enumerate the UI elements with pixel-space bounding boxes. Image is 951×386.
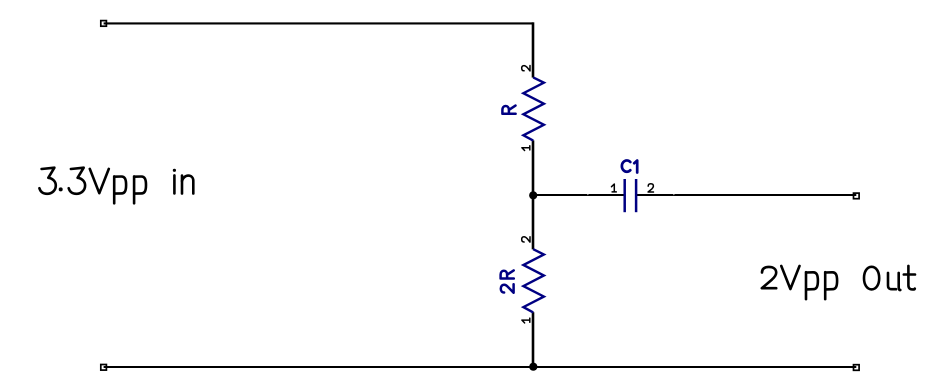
wire top vertical to R — [532, 22, 535, 77]
terminal top-left — [101, 21, 107, 27]
net label 2Vpp Out — [762, 266, 915, 299]
resistor R pin 2 number — [522, 66, 530, 71]
pin end notch right of C1 — [673, 193, 675, 195]
junction middle node — [529, 191, 537, 199]
terminal bottom-left — [101, 365, 107, 371]
capacitor C1 plates — [625, 179, 636, 212]
resistor R label — [502, 106, 515, 114]
resistor 2R body — [523, 249, 544, 312]
resistor 2R pin 2 number — [522, 237, 530, 242]
resistor 2R pin 1 number — [522, 318, 530, 323]
resistor R pin 1 number — [522, 146, 530, 151]
resistor 2R label — [501, 270, 514, 292]
wire middle left segment — [533, 194, 624, 196]
resistor R body — [523, 77, 544, 140]
terminal middle-right — [854, 193, 860, 199]
net label 3.3Vpp in — [39, 168, 193, 204]
capacitor C1 pin 1 number — [612, 184, 617, 192]
capacitor C1 pin 2 number — [648, 184, 653, 192]
wire 2R to bottom — [532, 312, 535, 367]
terminal bottom-right — [854, 365, 860, 371]
wire bottom horizontal — [104, 366, 857, 368]
junction bottom node — [529, 363, 537, 371]
wire top horizontal — [104, 22, 533, 24]
capacitor C1 label — [622, 160, 637, 172]
wire R to junction to 2R — [532, 140, 535, 249]
wire capacitor pin 2 stub to right terminal — [636, 194, 856, 196]
pin end notch left of C1 — [587, 193, 589, 195]
